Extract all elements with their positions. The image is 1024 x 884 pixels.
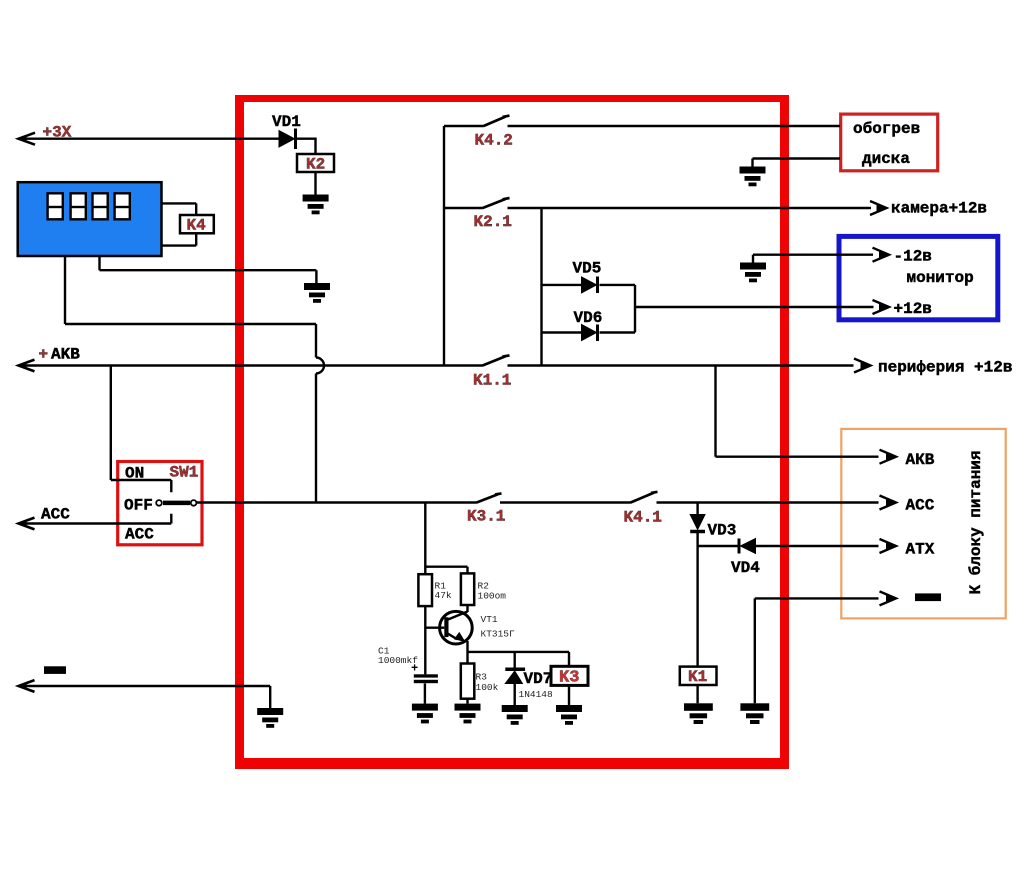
svg-text:K3: K3 — [559, 669, 579, 688]
svg-text:K1.1: K1.1 — [473, 372, 511, 390]
svg-text:K4.1: K4.1 — [624, 509, 662, 527]
svg-text:VD3: VD3 — [708, 522, 737, 540]
svg-text:K4.2: K4.2 — [475, 132, 513, 150]
svg-text:монитор: монитор — [907, 269, 974, 287]
svg-text:K1: K1 — [688, 668, 707, 686]
svg-text:K4: K4 — [187, 217, 207, 235]
svg-text:VD6: VD6 — [574, 309, 603, 327]
svg-text:100k: 100k — [476, 682, 499, 693]
svg-text:K3.1: K3.1 — [467, 508, 505, 526]
svg-text:ACC: ACC — [125, 526, 154, 544]
svg-text:+: + — [39, 346, 49, 364]
svg-text:47k: 47k — [435, 590, 452, 601]
svg-text:R3: R3 — [476, 672, 488, 683]
svg-text:периферия +12в: периферия +12в — [878, 359, 1012, 377]
svg-text:VT1: VT1 — [481, 614, 498, 625]
svg-text:КТ315Г: КТ315Г — [481, 629, 516, 640]
svg-text:VD1: VD1 — [272, 113, 301, 131]
svg-text:ON: ON — [125, 465, 144, 483]
svg-text:обогрев: обогрев — [853, 120, 920, 138]
svg-text:АТХ: АТХ — [906, 541, 935, 559]
svg-text:ACC: ACC — [41, 506, 70, 524]
svg-text:K2.1: K2.1 — [474, 213, 512, 231]
svg-text:K2: K2 — [306, 156, 325, 174]
svg-text:VD4: VD4 — [731, 559, 760, 577]
svg-text:+12в: +12в — [894, 300, 932, 318]
svg-text:VD5: VD5 — [573, 260, 602, 278]
svg-text:SW1: SW1 — [170, 464, 199, 482]
svg-text:-12в: -12в — [894, 248, 932, 266]
svg-text:OFF: OFF — [124, 497, 153, 515]
svg-text:1N4148: 1N4148 — [519, 689, 554, 700]
svg-text:+3Х: +3Х — [43, 124, 72, 142]
svg-text:диска: диска — [862, 150, 910, 168]
svg-text:VD7: VD7 — [524, 670, 553, 688]
svg-text:АКВ: АКВ — [906, 451, 935, 469]
svg-text:К блоку питания: К блоку питания — [967, 450, 985, 594]
svg-text:100om: 100om — [478, 591, 507, 602]
svg-text:камера+12в: камера+12в — [891, 200, 987, 218]
svg-text:AKB: AKB — [51, 346, 80, 364]
svg-text:АСС: АСС — [906, 497, 935, 515]
svg-text:1000mkf: 1000mkf — [378, 655, 418, 666]
